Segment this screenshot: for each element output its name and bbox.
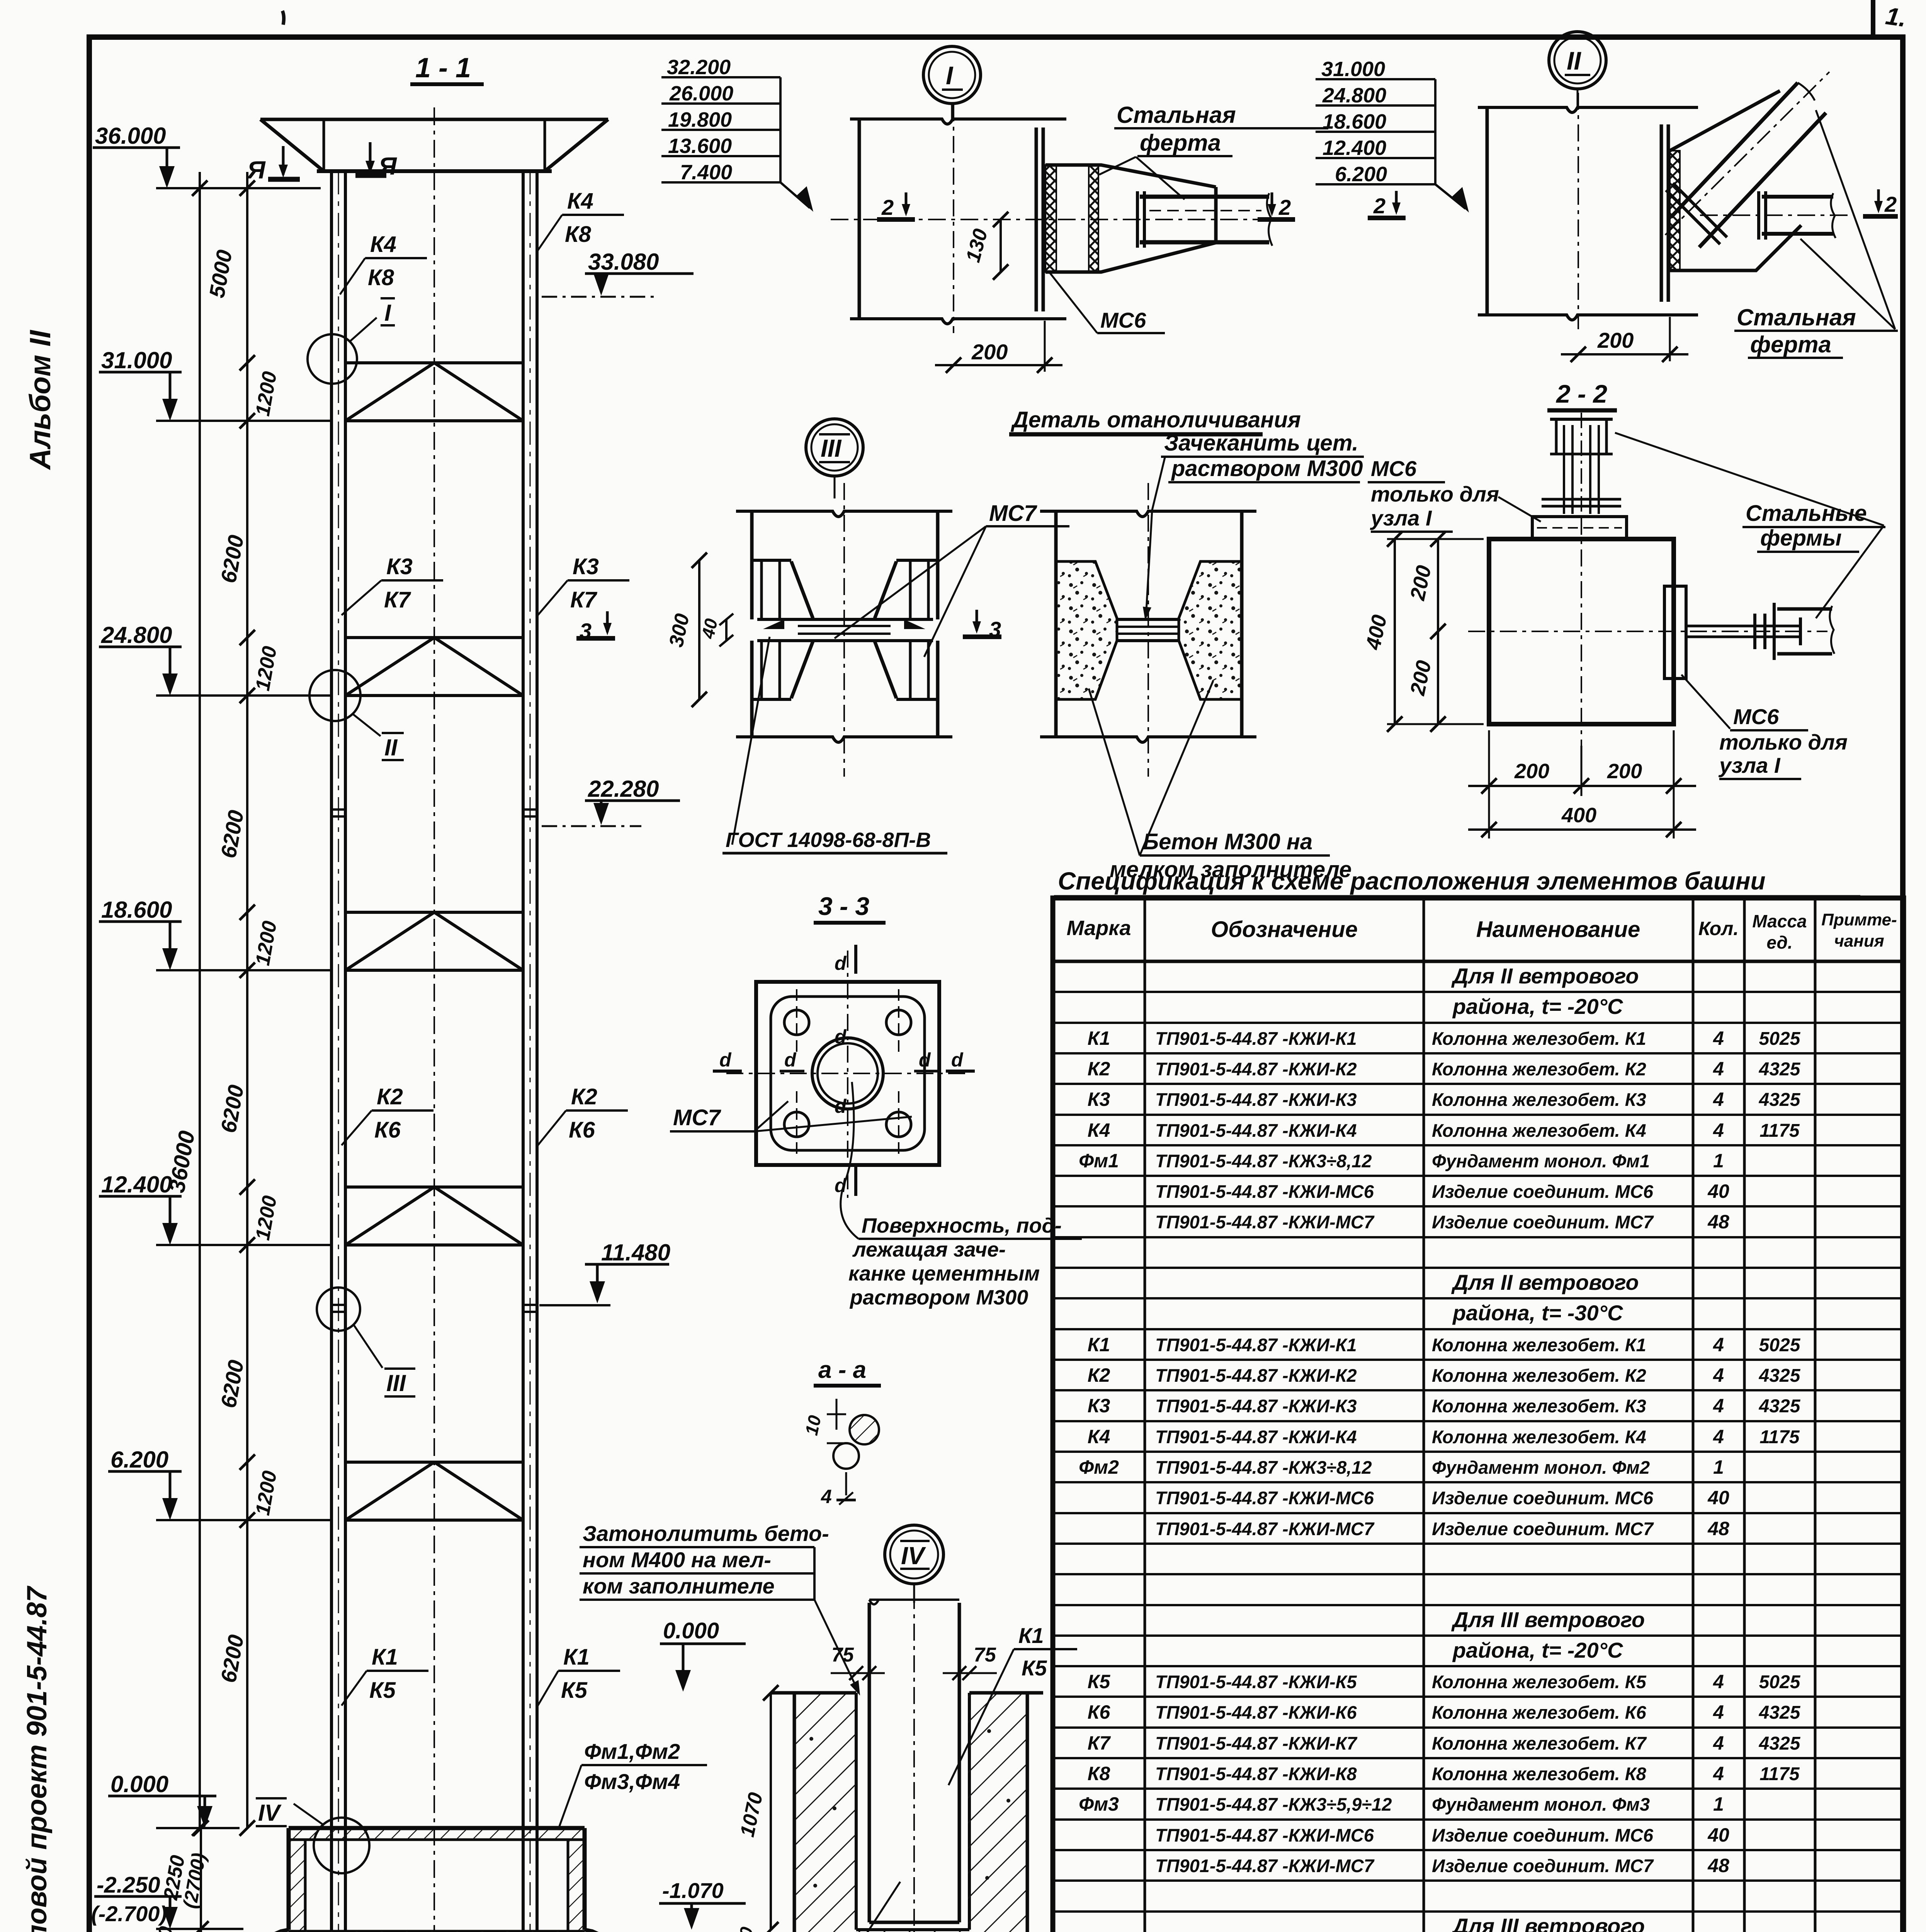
label Фм1,Фм2 Фм3,Фм4 <box>559 1739 707 1826</box>
column label K2/K6 left <box>342 1084 433 1145</box>
uzel IV cup hatching <box>796 1694 1026 1932</box>
svg-text:Кол.: Кол. <box>1698 918 1739 939</box>
svg-text:33.080: 33.080 <box>588 249 659 275</box>
svg-text:d: d <box>919 1049 931 1071</box>
column label K2/K6 right <box>538 1084 628 1145</box>
svg-text:МС7: МС7 <box>673 1105 721 1130</box>
specification table header <box>1067 910 1897 952</box>
label Стальные фермы <box>1615 433 1885 618</box>
label Затонолитить бетоном М400 <box>580 1521 860 1696</box>
svg-text:4325: 4325 <box>1759 1366 1801 1386</box>
storey chain dimension line <box>240 172 255 1836</box>
svg-text:чания: чания <box>1834 932 1884 951</box>
svg-text:К5: К5 <box>1088 1671 1111 1692</box>
otonolichivanie concrete fill left <box>1056 561 1117 699</box>
svg-text:19.800: 19.800 <box>668 108 732 131</box>
uzel I truss shoe <box>1045 165 1216 272</box>
svg-text:узла I: узла I <box>1370 506 1432 530</box>
svg-text:4: 4 <box>821 1486 832 1507</box>
svg-text:раствором М300: раствором М300 <box>1171 456 1363 481</box>
2-2 right plate MC6 <box>1664 586 1686 679</box>
svg-text:а - а: а - а <box>818 1357 866 1383</box>
svg-text:К5: К5 <box>369 1678 396 1703</box>
uzel I dim 130 <box>962 212 1008 280</box>
node circle II <box>309 670 404 760</box>
svg-text:Колонна железобет. К3: Колонна железобет. К3 <box>1432 1396 1646 1416</box>
uzel II gusset <box>1670 91 1801 270</box>
svg-text:Фм2: Фм2 <box>1079 1456 1119 1478</box>
2-2 bolt and truss tube right <box>1686 603 1834 660</box>
svg-text:IV: IV <box>258 1800 282 1826</box>
svg-text:11.480: 11.480 <box>601 1240 670 1265</box>
svg-text:0.000: 0.000 <box>663 1618 719 1643</box>
elevation mark 36.000 <box>93 123 321 188</box>
svg-text:ТП901-5-44.87 -КЖИ-К6: ТП901-5-44.87 -КЖИ-К6 <box>1155 1702 1357 1723</box>
svg-text:Колонна железобет. К7: Колонна железобет. К7 <box>1432 1733 1647 1753</box>
svg-text:12.400: 12.400 <box>101 1172 172 1197</box>
svg-text:ферта: ферта <box>1140 130 1221 156</box>
uzel I column drawing <box>850 104 1066 333</box>
node circle I <box>308 298 395 384</box>
elevation mark 24.800 <box>99 622 331 696</box>
svg-text:2: 2 <box>1884 192 1897 216</box>
uzel III joint drawing <box>736 483 952 777</box>
column K4/K8 right shaft <box>523 171 537 1932</box>
svg-text:К6: К6 <box>569 1117 595 1143</box>
svg-text:Альбом II: Альбом II <box>24 330 57 470</box>
foundation hatching <box>241 1830 631 1932</box>
svg-text:ТП901-5-44.87 -КЖИ-К8: ТП901-5-44.87 -КЖИ-К8 <box>1155 1764 1357 1784</box>
svg-text:II: II <box>1567 46 1581 75</box>
svg-text:Колонна железобет. К2: Колонна железобет. К2 <box>1432 1365 1646 1386</box>
svg-text:только для: только для <box>1371 482 1499 506</box>
svg-text:К4: К4 <box>1088 1119 1110 1141</box>
svg-text:75: 75 <box>831 1644 854 1666</box>
svg-text:4: 4 <box>1713 1763 1724 1784</box>
svg-text:Колонна железобет. К3: Колонна железобет. К3 <box>1432 1089 1646 1110</box>
svg-text:Колонна железобет. К8: Колонна железобет. К8 <box>1432 1764 1647 1784</box>
uzel IV mark -1.070 <box>659 1878 746 1930</box>
svg-text:К4: К4 <box>1088 1426 1110 1447</box>
rotated margin text: Альбом II <box>24 330 57 470</box>
svg-text:75: 75 <box>974 1644 996 1666</box>
svg-text:12.400: 12.400 <box>1323 136 1386 160</box>
label МС7 (3-3) <box>670 1101 912 1131</box>
svg-text:III: III <box>386 1370 406 1396</box>
uzel II dim 200 <box>1561 317 1688 362</box>
svg-text:К7: К7 <box>384 587 411 612</box>
specification table rows <box>1079 964 1801 1932</box>
svg-text:31.000: 31.000 <box>101 347 172 373</box>
truss panel at 31.000 <box>345 363 523 421</box>
svg-text:района, t= -30°C: района, t= -30°C <box>1452 1301 1623 1325</box>
svg-text:Колонна железобет. К4: Колонна железобет. К4 <box>1432 1427 1646 1447</box>
svg-text:Бетон М300 на: Бетон М300 на <box>1143 829 1312 854</box>
label Стальная ферма (uzel II) <box>1734 110 1898 358</box>
svg-text:5025: 5025 <box>1759 1029 1801 1049</box>
svg-text:Типовой проект 901-5-44.87: Типовой проект 901-5-44.87 <box>22 1585 53 1932</box>
label Зачеканить цем. раствором М300 <box>1143 430 1364 621</box>
svg-text:Изделие соединит. МС7: Изделие соединит. МС7 <box>1432 1519 1654 1539</box>
svg-text:4: 4 <box>1713 1088 1724 1110</box>
elevation mark 18.600 <box>99 897 331 970</box>
2-2 bottom dims 200 200 400 <box>1468 730 1696 838</box>
svg-text:Обозначение: Обозначение <box>1211 917 1358 942</box>
svg-text:Изделие соединит. МС7: Изделие соединит. МС7 <box>1432 1855 1654 1876</box>
detail a-a bars <box>801 1399 879 1507</box>
view title 1-1 <box>410 53 484 84</box>
svg-text:К6: К6 <box>374 1117 401 1143</box>
elevation mark 12.400 <box>99 1172 331 1245</box>
rotated margin text: Типовой проект 901-5-44.87 <box>22 1585 53 1932</box>
svg-text:3 - 3: 3 - 3 <box>818 892 869 920</box>
column label K3/K7 left <box>342 554 443 615</box>
svg-text:Примте-: Примте- <box>1821 910 1897 929</box>
svg-text:Спецификация к схеме располож: Спецификация к схеме расположения элемен… <box>1058 867 1766 895</box>
svg-text:Для II ветрового: Для II ветрового <box>1451 1270 1639 1294</box>
uzel IV dim 1070 <box>736 1685 779 1932</box>
detail 3-3 square <box>726 951 970 1198</box>
svg-text:4325: 4325 <box>1759 1059 1801 1080</box>
2-2 top truss shoe assembly <box>1542 413 1621 517</box>
svg-text:(-2.700): (-2.700) <box>91 1901 167 1926</box>
svg-text:Колонна железобет. К1: Колонна железобет. К1 <box>1432 1335 1646 1355</box>
uzel IV dim 50 <box>733 1925 757 1932</box>
svg-text:Стальная: Стальная <box>1117 102 1236 128</box>
svg-text:d: d <box>835 1095 847 1117</box>
svg-text:d: d <box>784 1049 797 1071</box>
svg-text:К1: К1 <box>372 1645 398 1670</box>
label К1/К5 (uzel IV) <box>949 1623 1077 1785</box>
svg-text:раствором М300: раствором М300 <box>849 1286 1028 1309</box>
svg-text:ТП901-5-44.87 -КЖИ-К1: ТП901-5-44.87 -КЖИ-К1 <box>1155 1028 1357 1049</box>
uzel II diagonal truss tube <box>1665 72 1829 247</box>
svg-text:1175: 1175 <box>1759 1764 1800 1784</box>
svg-text:4: 4 <box>1713 1395 1724 1417</box>
svg-text:канке цементным: канке цементным <box>848 1262 1040 1285</box>
svg-text:Фм3: Фм3 <box>1079 1793 1119 1815</box>
svg-text:Стальная: Стальная <box>1737 304 1856 330</box>
svg-text:4: 4 <box>1713 1364 1724 1386</box>
svg-text:ТП901-5-44.87 -КЖИ-К4: ТП901-5-44.87 -КЖИ-К4 <box>1155 1120 1357 1141</box>
truss panel at 24.800 <box>345 638 523 696</box>
column label K1/K5 left <box>342 1645 428 1706</box>
svg-text:18.600: 18.600 <box>101 897 172 923</box>
svg-text:40: 40 <box>1707 1824 1729 1846</box>
svg-text:1: 1 <box>1713 1150 1724 1172</box>
svg-text:К3: К3 <box>386 554 413 579</box>
truss panel at 6.200 <box>345 1462 523 1520</box>
uzel III dim 300 <box>665 553 707 707</box>
column label K4/K8 right <box>538 189 624 250</box>
right mark 33.080 <box>542 249 694 297</box>
svg-text:К3: К3 <box>1088 1088 1110 1110</box>
svg-text:1175: 1175 <box>1759 1121 1800 1141</box>
svg-text:4325: 4325 <box>1759 1702 1801 1723</box>
foundation base slab <box>241 1930 631 1932</box>
svg-text:Для III ветрового: Для III ветрового <box>1451 1607 1645 1632</box>
svg-text:4325: 4325 <box>1759 1733 1801 1754</box>
detail title: Деталь отоноличивания <box>1009 407 1301 434</box>
svg-text:ферта: ферта <box>1750 332 1831 357</box>
handwritten sheet number 1. top right <box>1884 2 1908 32</box>
svg-text:К5: К5 <box>561 1678 588 1703</box>
node circle III <box>317 1287 415 1396</box>
chain dim labels 1200 <box>252 370 281 1517</box>
svg-text:Фм3,Фм4: Фм3,Фм4 <box>584 1769 680 1794</box>
svg-text:Изделие соединит. МС6: Изделие соединит. МС6 <box>1432 1488 1654 1508</box>
svg-text:4: 4 <box>1713 1426 1724 1447</box>
svg-text:МС6: МС6 <box>1733 704 1779 729</box>
specification table grid <box>1053 898 1904 1932</box>
svg-text:Колонна железобет. К5: Колонна железобет. К5 <box>1432 1672 1647 1692</box>
svg-text:2: 2 <box>881 195 894 219</box>
svg-text:4325: 4325 <box>1759 1090 1801 1110</box>
svg-text:6.200: 6.200 <box>1335 163 1387 186</box>
svg-text:К4: К4 <box>567 189 593 214</box>
view title a-a <box>814 1357 881 1386</box>
svg-text:района, t= -20°C: района, t= -20°C <box>1452 994 1623 1019</box>
svg-text:К5: К5 <box>1022 1656 1047 1680</box>
2-2 dim 400 left <box>1361 531 1484 732</box>
detail 3-3 section marks d <box>713 945 975 1196</box>
svg-text:ТП901-5-44.87 -КЖИ-МС7: ТП901-5-44.87 -КЖИ-МС7 <box>1155 1519 1375 1539</box>
svg-text:К3: К3 <box>573 554 599 579</box>
svg-text:ТП901-5-44.87 -КЖ3÷8,12: ТП901-5-44.87 -КЖ3÷8,12 <box>1155 1151 1372 1171</box>
uzel II column drawing <box>1478 93 1698 329</box>
svg-text:Фундамент монол. Фм2: Фундамент монол. Фм2 <box>1432 1457 1650 1478</box>
uzel I circle label <box>923 46 981 120</box>
svg-text:Для II ветрового: Для II ветрового <box>1451 964 1639 988</box>
svg-text:только для: только для <box>1719 730 1848 754</box>
svg-text:К2: К2 <box>1088 1364 1110 1386</box>
svg-text:Для III ветрового: Для III ветрового <box>1451 1914 1645 1932</box>
svg-text:К4: К4 <box>370 232 396 257</box>
svg-text:2 - 2: 2 - 2 <box>1555 379 1607 408</box>
svg-text:лежащая заче-: лежащая заче- <box>852 1238 1006 1261</box>
svg-text:48: 48 <box>1707 1211 1729 1233</box>
svg-text:40: 40 <box>1707 1487 1729 1509</box>
svg-text:Колонна железобет. К6: Колонна железобет. К6 <box>1432 1702 1647 1723</box>
svg-text:36.000: 36.000 <box>95 123 166 149</box>
node circle IV <box>256 1798 369 1873</box>
svg-text:Наименование: Наименование <box>1476 917 1640 942</box>
svg-text:d: d <box>719 1049 732 1071</box>
svg-text:К1: К1 <box>1088 1027 1110 1049</box>
otonolichivanie joint seam <box>1117 619 1179 641</box>
uzel III circle label <box>806 419 863 498</box>
svg-text:I: I <box>384 300 391 326</box>
svg-text:узла I: узла I <box>1718 753 1781 777</box>
svg-text:d: d <box>835 1175 847 1196</box>
svg-text:200: 200 <box>971 340 1008 364</box>
svg-text:ТП901-5-44.87 -КЖИ-К3: ТП901-5-44.87 -КЖИ-К3 <box>1155 1396 1357 1416</box>
svg-text:ТП901-5-44.87 -КЖИ-К5: ТП901-5-44.87 -КЖИ-К5 <box>1155 1672 1357 1692</box>
svg-text:К7: К7 <box>570 587 598 612</box>
right mark 22.280 <box>542 776 680 826</box>
foundation stakan block <box>289 1828 585 1931</box>
svg-text:400: 400 <box>1561 804 1596 827</box>
svg-text:Колонна железобет. К2: Колонна железобет. К2 <box>1432 1059 1646 1079</box>
svg-text:1.: 1. <box>1884 2 1908 32</box>
svg-text:6.200: 6.200 <box>110 1447 168 1473</box>
svg-text:4: 4 <box>1713 1119 1724 1141</box>
svg-text:-1.070: -1.070 <box>662 1878 724 1903</box>
uzel II section mark 2 right <box>1863 189 1898 216</box>
svg-text:К8: К8 <box>1088 1763 1110 1784</box>
uzel IV elevation 0.000 <box>660 1618 746 1692</box>
tower centre axis <box>433 107 435 1932</box>
view title 3-3 <box>814 892 886 923</box>
uzel II level stack <box>1316 58 1469 213</box>
svg-text:ном М400 на мел-: ном М400 на мел- <box>583 1548 771 1572</box>
svg-text:-2.250: -2.250 <box>97 1872 160 1898</box>
svg-text:2: 2 <box>1278 195 1291 219</box>
svg-text:4: 4 <box>1713 1732 1724 1754</box>
label На поверхности колонны выполнить насечку <box>657 1882 900 1932</box>
svg-text:13.600: 13.600 <box>668 134 732 158</box>
svg-text:К3: К3 <box>1088 1395 1110 1417</box>
svg-text:ГОСТ 14098-68-8П-В: ГОСТ 14098-68-8П-В <box>726 828 931 852</box>
svg-text:d: d <box>835 952 847 974</box>
svg-text:2: 2 <box>1373 194 1385 218</box>
column splice joints <box>331 810 537 1312</box>
section mark 3 right <box>963 610 1001 641</box>
uzel I dim 200 <box>935 321 1062 373</box>
svg-text:Фундамент монол. Фм1: Фундамент монол. Фм1 <box>1432 1151 1650 1171</box>
svg-text:Изделие соединит. МС6: Изделие соединит. МС6 <box>1432 1181 1654 1202</box>
svg-text:II: II <box>384 735 398 760</box>
otonolichivanie concrete fill right <box>1179 561 1242 699</box>
svg-text:26.000: 26.000 <box>669 82 733 105</box>
svg-text:ТП901-5-44.87 -КЖИ-К4: ТП901-5-44.87 -КЖИ-К4 <box>1155 1427 1357 1447</box>
svg-text:ТП901-5-44.87 -КЖИ-К3: ТП901-5-44.87 -КЖИ-К3 <box>1155 1089 1357 1110</box>
label МС6 только для узла I (top left) <box>1368 456 1541 532</box>
svg-text:4: 4 <box>1713 1671 1724 1692</box>
svg-text:Фм1,Фм2: Фм1,Фм2 <box>584 1739 680 1764</box>
svg-text:200: 200 <box>1607 760 1642 783</box>
svg-text:31.000: 31.000 <box>1321 58 1385 81</box>
svg-text:фермы: фермы <box>1760 526 1842 551</box>
svg-text:Изделие соединит. МС7: Изделие соединит. МС7 <box>1432 1212 1654 1232</box>
svg-text:4: 4 <box>1713 1027 1724 1049</box>
svg-text:ТП901-5-44.87 -КЖИ-МС6: ТП901-5-44.87 -КЖИ-МС6 <box>1155 1181 1374 1202</box>
truss panel at 12.400 <box>345 1187 523 1245</box>
svg-text:ТП901-5-44.87 -КЖИ-МС6: ТП901-5-44.87 -КЖИ-МС6 <box>1155 1825 1374 1845</box>
uzel I level stack <box>661 56 813 212</box>
svg-text:К8: К8 <box>368 265 394 290</box>
svg-text:ТП901-5-44.87 -КЖ3÷5,9÷12: ТП901-5-44.87 -КЖ3÷5,9÷12 <box>1155 1794 1392 1815</box>
svg-text:Колонна железобет. К1: Колонна железобет. К1 <box>1432 1028 1646 1049</box>
svg-text:4: 4 <box>1713 1701 1724 1723</box>
elevation mark -2.250 (-2.700) <box>91 1872 243 1929</box>
uzel I section mark 2 right <box>1258 192 1295 219</box>
svg-text:IV: IV <box>901 1542 926 1570</box>
svg-text:48: 48 <box>1707 1518 1729 1539</box>
svg-text:32.200: 32.200 <box>667 56 731 79</box>
svg-text:4: 4 <box>1713 1334 1724 1355</box>
uzel IV foundation cup <box>771 1693 1045 1932</box>
svg-text:ТП901-5-44.87 -КЖИ-МС6: ТП901-5-44.87 -КЖИ-МС6 <box>1155 1488 1374 1508</box>
svg-text:Зачеканить цет.: Зачеканить цет. <box>1164 430 1358 456</box>
uzel III dim 40 <box>697 614 733 646</box>
chain dim label 5000 <box>204 248 237 300</box>
section mark Я right <box>355 142 397 180</box>
top-right corner cell divider <box>1871 0 1875 37</box>
uzel IV dims 75 75 <box>831 1644 997 1680</box>
small ink mark top centre <box>282 11 284 25</box>
svg-text:К7: К7 <box>1088 1732 1111 1754</box>
elevation mark 6.200 <box>108 1447 331 1520</box>
uzel II weld strip <box>1670 151 1680 270</box>
label Бетон М300 на мелком заполнителе <box>1089 681 1351 882</box>
svg-text:1: 1 <box>1713 1793 1724 1815</box>
svg-text:0.000: 0.000 <box>110 1771 168 1797</box>
svg-text:ТП901-5-44.87 -КЖ3÷8,12: ТП901-5-44.87 -КЖ3÷8,12 <box>1155 1457 1372 1478</box>
column K4/K8 left shaft <box>331 171 345 1932</box>
column label K1/K5 right <box>538 1645 620 1706</box>
label МС6 (uzel I) <box>1049 271 1165 333</box>
svg-text:К2: К2 <box>1088 1058 1110 1080</box>
uzel IV column in cup <box>869 1592 959 1932</box>
svg-text:ТП901-5-44.87 -КЖИ-МС7: ТП901-5-44.87 -КЖИ-МС7 <box>1155 1212 1375 1232</box>
tower tank funnel <box>260 119 608 171</box>
svg-text:МС7: МС7 <box>989 501 1037 526</box>
svg-text:Масса: Масса <box>1752 911 1807 931</box>
svg-text:1: 1 <box>1713 1456 1724 1478</box>
svg-text:200: 200 <box>1514 760 1549 783</box>
svg-text:24.800: 24.800 <box>1322 84 1386 107</box>
svg-text:ТП901-5-44.87 -КЖИ-К7: ТП901-5-44.87 -КЖИ-К7 <box>1155 1733 1358 1753</box>
2-2 column square <box>1468 518 1827 746</box>
uzel I truss chord tube <box>831 191 1287 248</box>
svg-text:I: I <box>946 61 954 90</box>
column label K3/K7 right <box>538 554 629 615</box>
svg-text:Изделие соединит. МС6: Изделие соединит. МС6 <box>1432 1825 1654 1845</box>
foundation chain dims 2250(2700)/600 <box>150 1820 210 1932</box>
truss panel at 18.600 <box>345 912 523 970</box>
svg-text:К1: К1 <box>563 1645 590 1670</box>
svg-text:МС6: МС6 <box>1371 456 1417 481</box>
svg-text:К1: К1 <box>1088 1334 1110 1355</box>
svg-text:К1: К1 <box>1018 1623 1044 1648</box>
svg-text:1175: 1175 <box>1759 1427 1800 1447</box>
uzel III weld fillets <box>763 619 925 629</box>
svg-text:III: III <box>821 434 842 462</box>
svg-text:48: 48 <box>1707 1855 1729 1876</box>
svg-text:d: d <box>951 1049 964 1071</box>
uzel IV circle label <box>885 1525 943 1603</box>
uzel I section mark 2 left <box>877 192 915 219</box>
section mark Я left <box>246 146 300 184</box>
label МС7 (uzel III) <box>835 501 1069 657</box>
svg-text:Я: Я <box>246 156 266 184</box>
elevation mark 0.000 <box>108 1771 240 1828</box>
svg-text:К2: К2 <box>571 1084 597 1109</box>
svg-text:ТП901-5-44.87 -КЖИ-МС7: ТП901-5-44.87 -КЖИ-МС7 <box>1155 1855 1375 1876</box>
uzel II circle label <box>1549 32 1606 107</box>
svg-text:К8: К8 <box>565 222 592 247</box>
label МС6 только для узла I (bottom right) <box>1681 675 1848 779</box>
view title 2-2 <box>1547 379 1617 410</box>
svg-text:Затонолитить бето-: Затонолитить бето- <box>583 1521 829 1546</box>
svg-text:40: 40 <box>697 617 721 641</box>
uzel I weld strips <box>1045 165 1098 272</box>
svg-text:района, t= -20°C: района, t= -20°C <box>1452 1638 1623 1662</box>
svg-text:22.280: 22.280 <box>588 776 659 802</box>
svg-text:Фм1: Фм1 <box>1079 1150 1119 1172</box>
svg-text:40: 40 <box>1707 1180 1729 1202</box>
